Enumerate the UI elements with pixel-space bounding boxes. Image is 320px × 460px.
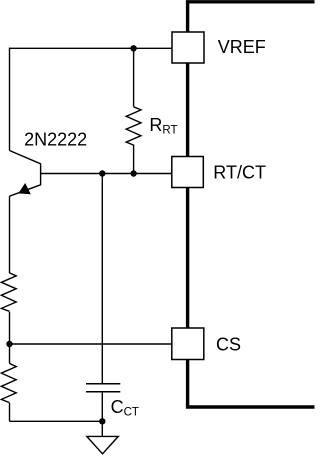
wire: capacitor to ground node (101, 392, 103, 422)
wire: left vertical (collector lead) (9, 48, 11, 151)
svg-text:CCT: CCT (111, 397, 139, 419)
wire: base lead to RT/CT pin (41, 173, 172, 175)
wire: CS rail from left wire to CS pin (10, 343, 173, 345)
wire: bottom rail to ground node (10, 420, 103, 422)
capacitor C1 C_CT: bottom plate (86, 391, 120, 393)
wire: VREF top rail from left wire to VREF pin (10, 47, 173, 49)
ground symbol (open triangle) (87, 436, 119, 453)
pin box CS (172, 328, 204, 360)
wire: left vertical (R1 to R2, through CS node) (9, 312, 11, 364)
junction dot: CS rail / left wire (6, 341, 12, 347)
wire: left vertical (emitter to R1) (9, 196, 11, 273)
svg-text:RRT: RRT (149, 115, 177, 137)
wire: left vertical (R2 to bottom rail) (9, 403, 11, 421)
transistor Q1 2N2222: emitter arrow (NPN) (19, 184, 30, 194)
transistor Q1 2N2222: base bar (40, 163, 42, 185)
resistor R2 (lower left zigzag) (1, 363, 16, 402)
IC outline (thick bus, left edge of controller) (188, 2, 315, 407)
svg-text:2N2222: 2N2222 (24, 130, 87, 150)
junction dot: base rail / capacitor branch (99, 170, 105, 176)
pin box RT/CT (172, 157, 204, 188)
junction dot: ground node (99, 418, 105, 424)
svg-text:CS: CS (216, 334, 241, 354)
pin box VREF (172, 32, 204, 63)
capacitor C1 C_CT: top plate (86, 383, 120, 385)
wire: R_RT bottom lead to RT/CT rail (133, 145, 135, 174)
wire: RT/CT node down to capacitor (101, 174, 103, 384)
junction dot: base rail / R_RT bottom (130, 170, 136, 176)
resistor R1 (upper left zigzag) (1, 273, 16, 311)
transistor Q1 2N2222: collector diagonal (10, 151, 41, 164)
wire: ground stem (101, 421, 103, 436)
junction dot: VREF rail / R_RT (130, 45, 136, 51)
resistor R_RT zigzag (126, 107, 141, 145)
svg-text:RT/CT: RT/CT (213, 163, 266, 183)
wire: R_RT top lead from VREF rail (133, 48, 135, 106)
transistor Q1 2N2222: emitter diagonal (10, 185, 41, 196)
svg-text:VREF: VREF (218, 37, 266, 57)
